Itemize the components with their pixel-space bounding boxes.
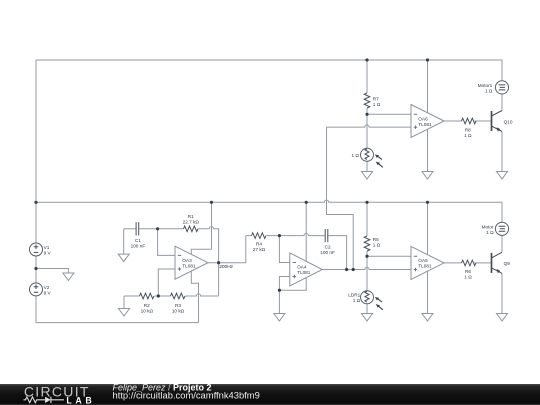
photoresistor LDR (top) [361, 148, 383, 167]
wire bottom negative rail [36, 322, 199, 324]
svg-text:V2: V2 [44, 285, 50, 290]
node R4 C2 junction [278, 234, 281, 237]
svg-text:http://circuitlab.com/camffnk4: http://circuitlab.com/camffnk43bfm9 [113, 389, 260, 400]
svg-text:OA4: OA4 [297, 265, 307, 270]
wire R7 bottom to LDR top [366, 108, 368, 148]
node R7 bottom / OA6 minus [365, 113, 368, 116]
wire V2 bottom [35, 296, 37, 323]
svg-text:1 Ω: 1 Ω [464, 133, 472, 138]
ground (Q9 emitter) [497, 314, 508, 322]
svg-text:R7: R7 [373, 96, 379, 101]
wire R4 left lead [246, 235, 252, 237]
svg-text:OA5: OA5 [418, 258, 428, 263]
node feed join OA4 output [352, 268, 355, 271]
resistor R4 [252, 233, 266, 239]
resistor R7 [364, 93, 370, 108]
wire OA4 ground stub [278, 290, 280, 313]
wire R2 left lead to ground [124, 296, 140, 309]
wire R4 right lead [267, 235, 280, 237]
svg-text:C2: C2 [325, 245, 331, 250]
wire OA6 plus input with hop [327, 125, 412, 127]
wire LDR1 bottom to ground [366, 304, 368, 314]
wire Q10 emitter to ground [501, 132, 503, 172]
node C1 R1 junction [156, 227, 159, 230]
wire R5 top lead [366, 202, 368, 236]
voltage source V2 [30, 283, 43, 296]
svg-text:27 kΩ: 27 kΩ [253, 247, 266, 252]
wire OA4 minus drop [279, 236, 289, 263]
node C2 feedback output [345, 268, 348, 271]
svg-text:200Hz: 200Hz [219, 264, 233, 270]
wire left vertical to V1 [35, 60, 37, 243]
wire R2 R3 node [155, 295, 171, 297]
op-amp OA3 [175, 246, 208, 279]
svg-text:R1: R1 [188, 214, 194, 219]
resistor R3 [171, 293, 185, 299]
svg-text:1 Ω: 1 Ω [485, 88, 493, 93]
ground (Q10 emitter) [497, 172, 508, 180]
wire C1 ground stub [123, 229, 125, 254]
transistor Q9 [492, 252, 503, 273]
wire OA5 minus input [367, 255, 411, 257]
ground (OA6 V-) [422, 172, 433, 180]
svg-text:1 Ω: 1 Ω [373, 242, 381, 247]
motor Motor2 [495, 222, 508, 235]
node OA3 output junction [217, 261, 220, 264]
resistor R8 [462, 118, 476, 124]
wire R4 to C2 with hop [279, 233, 324, 235]
node R7 top rail [365, 58, 368, 61]
node OA4 V+ rail [305, 201, 308, 204]
svg-text:1 Ω: 1 Ω [486, 230, 494, 235]
wire top rail V+ [36, 60, 502, 81]
svg-text:V1: V1 [44, 245, 50, 250]
svg-text:OA6: OA6 [418, 116, 428, 121]
ground (LDR top) [362, 172, 373, 180]
node R2 R3 junction [157, 294, 160, 297]
op-amp OA6 [411, 105, 444, 138]
svg-text:OA3: OA3 [182, 258, 192, 263]
wire R7 top lead [366, 60, 368, 93]
ground (V1 V2 midpoint) [63, 273, 74, 281]
voltage source V1 [30, 243, 43, 256]
wire mid supply ground stub [36, 269, 68, 274]
wire OA6 plus feed down to OA4 output node [327, 127, 354, 269]
node V1 V2 ground junction [34, 267, 37, 270]
wire OA3 output to R4 riser [208, 236, 246, 263]
svg-text:TL081: TL081 [297, 270, 311, 275]
resistor R2 [140, 293, 154, 299]
svg-text:10 kΩ: 10 kΩ [141, 308, 154, 313]
wire R3 right to output with hop [186, 263, 219, 296]
svg-text:Q10: Q10 [504, 119, 513, 124]
svg-text:Motor: Motor [482, 224, 494, 229]
wire OA6 output to R8 [444, 120, 462, 122]
wire Q9 emitter to ground [501, 273, 503, 313]
svg-text:1 Ω: 1 Ω [353, 298, 361, 303]
svg-text:1 Ω: 1 Ω [464, 274, 472, 279]
wire OA3 V- to negative rail [191, 271, 198, 323]
ground (R2) [119, 309, 130, 317]
svg-text:9 V: 9 V [44, 251, 52, 256]
photoresistor LDR1 [361, 291, 383, 310]
motor Motor1 [495, 81, 508, 94]
svg-text:LAB: LAB [66, 395, 95, 405]
wire R8 to Q10 base [475, 120, 492, 122]
op-amp OA5 [411, 246, 444, 279]
capacitor C1 [136, 222, 139, 235]
ground (LDR1) [362, 314, 373, 322]
node OA3 V+ rail [210, 201, 213, 204]
wire OA6 V- stub to ground [427, 129, 429, 171]
wire V1 to V2 [35, 256, 37, 283]
wire OA6 V+ stub [427, 60, 429, 113]
wire OA5 V- stub [427, 271, 429, 313]
svg-text:R4: R4 [256, 241, 262, 246]
wire OA4 output to OA5 plus with hop [322, 267, 411, 269]
svg-text:C1: C1 [135, 238, 141, 243]
svg-text:TL081: TL081 [418, 264, 432, 269]
wire Q9 collector to Motor2 [501, 235, 503, 252]
wire OA4 V+ stub [305, 202, 307, 261]
wire OA6 minus input [367, 113, 411, 115]
ground (OA4) [274, 314, 285, 322]
svg-text:10 kΩ: 10 kΩ [172, 308, 185, 313]
capacitor C2 [325, 229, 328, 242]
wire Q10 collector to Motor1 [501, 94, 503, 111]
wire C1 left lead [124, 228, 136, 230]
wire C1 to R1 [139, 228, 183, 230]
wire OA4 plus input [279, 277, 289, 291]
node R5 bottom OA5 minus [365, 255, 368, 258]
svg-text:100 nF: 100 nF [131, 243, 146, 248]
transistor Q10 [492, 111, 503, 132]
ground (OA5 V-) [422, 314, 433, 322]
node OA4 plus ground [278, 289, 281, 292]
node OA5 V+ rail [426, 201, 429, 204]
svg-text:R5: R5 [373, 237, 379, 242]
wire OA4 V- stub [279, 278, 306, 290]
svg-text:1 Ω: 1 Ω [351, 153, 359, 158]
svg-text:R3: R3 [175, 303, 181, 308]
svg-text:R2: R2 [144, 303, 150, 308]
svg-text:R8: R8 [465, 128, 471, 133]
svg-text:TL081: TL081 [418, 122, 432, 127]
svg-text:22.7 kΩ: 22.7 kΩ [183, 220, 200, 225]
wire OA5 output to R6 [444, 262, 462, 264]
svg-text:R6: R6 [465, 269, 471, 274]
wire OA3 V+ riser [191, 202, 211, 254]
svg-text:Q9: Q9 [504, 261, 511, 266]
wire C2 right to output node [328, 236, 346, 270]
node R5 top rail [365, 201, 368, 204]
wire R5 bottom to LDR1 [366, 251, 368, 291]
resistor R1 [184, 226, 198, 232]
wire LDR bottom to ground [366, 161, 368, 171]
svg-text:LDR1: LDR1 [348, 293, 360, 298]
node OA6 V+ rail [426, 58, 429, 61]
svg-text:TL081: TL081 [182, 264, 196, 269]
svg-text:9 V: 9 V [44, 291, 52, 296]
wire OA5 V+ stub [427, 202, 429, 254]
op-amp OA4 [290, 253, 323, 286]
svg-text:Motor1: Motor1 [478, 83, 493, 88]
wire OA3 plus input [158, 269, 175, 296]
svg-text:1 Ω: 1 Ω [373, 102, 381, 107]
wire R6 to Q9 base [475, 262, 492, 264]
resistor R6 [462, 260, 476, 266]
wire mid rail V+ with hop [36, 200, 502, 222]
svg-text:100 nF: 100 nF [320, 250, 335, 255]
node left mid rail [34, 201, 37, 204]
resistor R5 [364, 236, 370, 251]
ground (C1) [118, 254, 129, 262]
wire R1 right feedback with hop [198, 227, 219, 263]
wire node to OA3 minus input [158, 229, 175, 256]
